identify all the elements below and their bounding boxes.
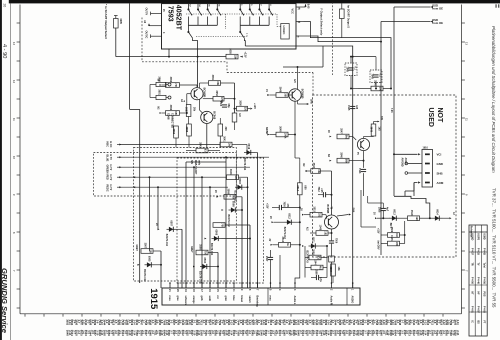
resistor R3504 vertical [331, 264, 336, 276]
svg-text:26: 26 [2, 4, 6, 8]
svg-text:3513: 3513 [296, 185, 299, 191]
svg-text:SH6: SH6 [310, 99, 313, 104]
svg-text:6518: 6518 [238, 178, 241, 184]
wire X1910 GND with socket [405, 162, 408, 165]
IC U1 switch array group 1 [187, 3, 189, 9]
svg-text:3654: 3654 [215, 90, 218, 96]
svg-text:BZX79-C12: BZX79-C12 [165, 234, 167, 247]
svg-text:750: 750 [148, 249, 151, 254]
svg-text:weiß: weiß [208, 296, 211, 302]
supply arrow 5A5 [304, 4, 306, 6]
matrix vertical wires [185, 162, 187, 288]
svg-text:TR: TR [470, 263, 472, 266]
wire collector drop [234, 83, 236, 113]
IC U1 output switch S2 [239, 25, 241, 31]
svg-text:3512: 3512 [281, 236, 284, 242]
resistor R3545 vertical [371, 124, 376, 136]
left black page edge [0, 0, 2, 340]
svg-text:6507: 6507 [170, 220, 173, 226]
svg-text:SHB: SHB [437, 171, 443, 175]
svg-text:TVR 37... TVR 5100... TVR 51: TVR 37... TVR 5100... TVR 5110 VT... TVR… [492, 188, 497, 308]
svg-text:gelb: gelb [200, 296, 203, 301]
svg-text:7545: 7545 [370, 74, 373, 80]
resistor R3546 [337, 158, 349, 163]
svg-text:3641: 3641 [222, 136, 225, 142]
connector pins P3691 [156, 95, 166, 99]
svg-text:BC858B: BC858B [326, 205, 328, 214]
svg-text:AV/GND: AV/GND [401, 158, 404, 167]
jumper via at box edge [329, 256, 335, 262]
svg-text:6512: 6512 [288, 213, 291, 219]
svg-text:1V: 1V [157, 79, 159, 82]
capacitor C7011 [381, 207, 386, 209]
resistor R3544 feed row [305, 170, 307, 172]
svg-text:Platinenabbildungen und Schalt: Platinenabbildungen und Schaltpläne / La… [491, 26, 496, 173]
svg-text:LOGIC: LOGIC [282, 26, 286, 35]
resistor R3653 vertical [174, 126, 179, 138]
svg-text:BZX79-C43: BZX79-C43 [306, 251, 309, 264]
svg-text:730: 730 [174, 83, 177, 88]
svg-text:bei GRV: bei GRV [377, 241, 379, 250]
svg-text:1915: 1915 [148, 288, 159, 310]
resistor R3657 vertical [186, 105, 191, 117]
svg-text:3505: 3505 [311, 249, 314, 255]
resistor R3509 [388, 233, 400, 238]
T6 emitter chain [331, 229, 333, 240]
resistor R3656 [166, 111, 180, 116]
dashed box B RGB SCART [177, 158, 264, 283]
svg-text:7508: 7508 [283, 202, 285, 208]
svg-text:SH6: SH6 [352, 208, 355, 213]
input arrow 12V T3 [267, 94, 269, 96]
svg-text:from OE: from OE [432, 7, 443, 11]
svg-text:5k6: 5k6 [344, 135, 347, 140]
svg-text:BC848: BC848 [212, 111, 215, 119]
matrix pair 2 resistor R3506 [213, 223, 225, 228]
svg-text:BC848B: BC848B [203, 88, 206, 98]
svg-text:1k5: 1k5 [377, 127, 380, 132]
svg-text:GND: GND [437, 162, 443, 166]
svg-text:IC: IC [470, 321, 472, 324]
svg-text:3652: 3652 [169, 77, 172, 83]
matrix diode V6507 [167, 228, 177, 230]
connector X1910 pin GND [425, 163, 430, 165]
svg-text:KOPS: KOPS [477, 234, 479, 241]
svg-text:OUT/C: OUT/C [145, 31, 148, 39]
wire X1910 VCI with arrow [394, 153, 418, 155]
svg-text:BZX79-C12: BZX79-C12 [199, 271, 201, 284]
diode V6511 lower [309, 245, 319, 247]
connector X1915 body [162, 288, 360, 305]
wire bus bottom staircase [394, 196, 430, 218]
svg-text:1k0: 1k0 [227, 143, 230, 148]
svg-text:3655: 3655 [228, 48, 231, 54]
OSD vertical 1 [393, 7, 395, 196]
svg-text:n15: n15 [355, 105, 358, 110]
dashed box matrix outer [134, 148, 237, 282]
capacitor C7546 [361, 168, 366, 170]
svg-text:A/V: A/V [293, 79, 296, 83]
wire IC output down [197, 49, 199, 87]
svg-text:3656: 3656 [169, 105, 172, 111]
svg-text:+12V: +12V [244, 52, 248, 58]
svg-text:910: 910 [203, 149, 206, 154]
svg-text:to TV: to TV [109, 165, 112, 171]
matrix pair 2 diode V6506 [212, 238, 222, 240]
transistor T3 [289, 89, 301, 101]
svg-text:220: 220 [243, 107, 246, 112]
connector X1910 pin VCI [425, 153, 430, 155]
svg-text:VCC: VCC [291, 9, 294, 14]
svg-text:2506: 2506 [219, 101, 221, 107]
resistor R1546 [316, 231, 328, 236]
svg-text:3649: 3649 [278, 87, 281, 93]
svg-text:3507: 3507 [143, 243, 146, 249]
svg-text:36k: 36k [216, 81, 219, 86]
svg-text:BZX79-C12: BZX79-C12 [143, 269, 145, 282]
T3 emitter arrow [297, 101, 299, 105]
wire KBC [122, 144, 221, 146]
svg-text:orange: orange [192, 296, 195, 305]
matrix pair 4 diode V6504 [200, 266, 210, 268]
svg-text:750: 750 [220, 223, 223, 228]
resistor R3510 [408, 216, 420, 221]
svg-text:6506: 6506 [215, 230, 218, 236]
svg-text:3653: 3653 [172, 129, 175, 135]
svg-text:2-14: 2-14 [456, 320, 460, 326]
connector X1910 pin AOM [425, 182, 430, 184]
connector X1910 pin SHB [425, 172, 430, 174]
svg-text:5A5: 5A5 [307, 4, 310, 9]
svg-text:Tafel: Tafel [483, 263, 485, 269]
diode V6019 [244, 152, 254, 154]
wire BLUE [122, 156, 270, 158]
svg-text:grün: grün [224, 296, 227, 302]
transistor T2 [201, 111, 213, 123]
svg-text:3509: 3509 [226, 188, 229, 194]
svg-text:10k: 10k [337, 267, 340, 272]
resistor R1545 [388, 241, 400, 246]
svg-text:7509: 7509 [335, 238, 337, 244]
svg-text:grau: grau [176, 296, 179, 302]
svg-text:4k7: 4k7 [318, 266, 321, 271]
svg-text:3545: 3545 [370, 127, 373, 133]
svg-text:NOT: NOT [436, 108, 443, 124]
svg-text:P 4-63: P 4-63 [483, 306, 486, 314]
svg-text:750: 750 [231, 195, 234, 200]
svg-text:15k: 15k [233, 55, 236, 60]
svg-text:CONNECTED: CONNECTED [170, 113, 173, 128]
svg-text:VCI: VCI [437, 153, 442, 157]
matrix pair 3 resistor R3507 [141, 249, 153, 254]
svg-text:to TV: to TV [109, 154, 112, 160]
svg-text:P 4-43: P 4-43 [483, 248, 486, 256]
svg-text:Y Output Select only: Y Output Select only [320, 8, 324, 36]
svg-text:6504: 6504 [203, 258, 206, 264]
svg-text:BZX79-C12: BZX79-C12 [227, 215, 229, 228]
svg-text:AUDIO: AUDIO [351, 296, 354, 304]
resistor R3505 [309, 255, 321, 260]
emitter drop to cluster [360, 190, 362, 227]
svg-text:to CO: to CO [109, 141, 112, 147]
left ruler [19, 5, 21, 314]
OSD vertical 2 [380, 22, 382, 256]
matrix pair 3 diode V6505 [145, 264, 155, 266]
wire REDC [122, 186, 229, 188]
T5 emitter wires [363, 151, 365, 168]
svg-text:only: only [198, 160, 201, 166]
left margin rule [10, 3, 12, 340]
svg-text:180: 180 [395, 242, 398, 247]
svg-text:P 4-37: P 4-37 [470, 248, 473, 256]
IC U1 4052BT outline [162, 4, 297, 49]
dashed box A inputs [94, 153, 237, 197]
svg-text:3510: 3510 [410, 210, 413, 216]
svg-text:390: 390 [378, 87, 381, 92]
svg-text:OUT/Y: OUT/Y [145, 8, 148, 16]
matrix pair A resistor R3643 [227, 175, 239, 180]
IC U1 logic block [281, 24, 289, 40]
svg-text:blau: blau [232, 296, 235, 301]
capacitor C2506b [222, 104, 227, 106]
top black border bar [9, 0, 500, 3]
svg-text:+12V: +12V [377, 228, 379, 234]
svg-text:4 - 90: 4 - 90 [1, 44, 7, 58]
component V6904 scart output [340, 9, 345, 19]
svg-text:3V: 3V [327, 130, 329, 133]
dashed region Y output select boundary [141, 18, 143, 62]
svg-text:rosa: rosa [168, 296, 171, 302]
svg-text:3508: 3508 [198, 244, 201, 250]
svg-text:910: 910 [395, 233, 398, 238]
IC U1 switch array group 2 [239, 3, 241, 9]
svg-text:P 4-57: P 4-57 [477, 306, 480, 314]
svg-text:1545: 1545 [347, 105, 350, 111]
svg-text:7546: 7546 [358, 168, 361, 174]
svg-text:4052BT: 4052BT [175, 5, 183, 31]
svg-text:3658: 3658 [185, 127, 188, 133]
bottom ruler [20, 313, 462, 315]
svg-text:6014: 6014 [436, 209, 439, 215]
matrix pair 1 diode V6508 [229, 209, 239, 211]
svg-text:P 4-61: P 4-61 [470, 306, 473, 314]
svg-text:1546: 1546 [318, 225, 321, 231]
svg-text:IGMD: IGMD [483, 234, 485, 240]
transistor T5 [357, 138, 369, 150]
svg-text:7512: 7512 [317, 187, 319, 193]
transistor T6 [325, 215, 339, 229]
IC U1 left pin A2 [148, 23, 150, 25]
svg-text:3546: 3546 [339, 152, 342, 158]
svg-text:390: 390 [224, 127, 227, 132]
svg-text:680: 680 [174, 111, 177, 116]
svg-text:BC848B: BC848B [301, 89, 304, 99]
svg-text:6019: 6019 [247, 144, 250, 150]
resistor R3652 [166, 83, 180, 88]
svg-text:6905: 6905 [119, 19, 122, 25]
svg-text:3547: 3547 [339, 128, 342, 134]
svg-text:1V: 1V [373, 212, 375, 215]
svg-text:3509: 3509 [390, 227, 393, 233]
svg-text:to TV: to TV [109, 185, 112, 191]
svg-text:1V: 1V [265, 89, 268, 92]
resistor R3651 [209, 81, 221, 86]
wire T6 collector vertical [331, 171, 333, 215]
diode row arrow left [375, 217, 377, 219]
dashed box C NOT USED [313, 95, 457, 257]
svg-text:Audio L: Audio L [293, 296, 296, 305]
svg-text:GREEN: GREEN [106, 165, 109, 174]
wires risers above connector [279, 255, 281, 283]
svg-text:GRUNDIG Service: GRUNDIG Service [0, 268, 9, 334]
svg-text:for SCART Output S: for SCART Output S [347, 5, 350, 28]
svg-text:schwarz: schwarz [184, 296, 187, 306]
T2 emitter down [206, 124, 208, 148]
svg-text:GREY: GREY [135, 245, 137, 252]
svg-text:braun: braun [240, 296, 243, 303]
svg-text:P 4-56: P 4-56 [483, 277, 486, 285]
matrix pair 1 resistor R3509 [224, 195, 236, 200]
svg-text:56k: 56k [344, 159, 347, 164]
resistor R3512 [271, 244, 273, 246]
svg-text:violett: violett [248, 296, 251, 303]
wire bundle corners right of IC [304, 22, 392, 89]
svg-text:2V: 2V [155, 223, 157, 226]
svg-text:rosa: rosa [268, 296, 271, 302]
svg-text:1544: 1544 [313, 259, 316, 265]
svg-text:750: 750 [203, 251, 206, 256]
wire long vertical to matrix [139, 109, 141, 283]
junction on +12V feed [197, 56, 199, 58]
matrix pair A diode V6518 [235, 186, 245, 188]
svg-text:P 4-46: P 4-46 [477, 277, 480, 285]
svg-text:+12V: +12V [253, 103, 256, 109]
svg-text:1545: 1545 [390, 235, 393, 241]
svg-text:3543: 3543 [198, 142, 201, 148]
OSD input arrow 1 [431, 6, 433, 8]
resistor R1544 [311, 265, 323, 270]
wire +12V feed [116, 56, 226, 58]
svg-text:RED: RED [106, 175, 109, 180]
svg-text:1545: 1545 [345, 67, 348, 73]
svg-text:7593: 7593 [166, 6, 174, 22]
resistor R3648 [276, 132, 288, 137]
svg-text:3643: 3643 [229, 169, 232, 175]
svg-text:10k: 10k [317, 169, 320, 174]
svg-text:P 4-33: P 4-33 [477, 248, 480, 256]
resistor R3546a [371, 86, 383, 91]
svg-text:6505: 6505 [148, 256, 151, 262]
IC U1 internal control dashes [186, 13, 277, 15]
svg-text:2V: 2V [269, 216, 271, 219]
svg-text:N2/BD: N2/BD [265, 127, 268, 134]
svg-text:2506: 2506 [378, 207, 381, 213]
svg-text:GREY: GREY [190, 246, 192, 253]
svg-text:BLUE: BLUE [106, 155, 109, 162]
wire bend to pin3 [295, 270, 300, 283]
wire RED [122, 176, 227, 178]
connector X1915 pins [169, 283, 171, 288]
matrix pair 4 resistor R3508 [196, 250, 208, 255]
jumper H3 [232, 113, 237, 122]
diode V6512 [285, 221, 295, 223]
resistor R3641 [220, 142, 232, 147]
svg-text:680: 680 [304, 185, 307, 190]
input arrow left T1 row 1 [160, 84, 162, 86]
input arrow left T1 row 2 [160, 112, 162, 114]
svg-text:3657: 3657 [185, 107, 188, 113]
capacitor C2508 [315, 275, 317, 280]
connector pins P3690 [156, 82, 166, 86]
capacitor C2507 [268, 256, 273, 258]
IC U1 left pin OUT C [151, 35, 162, 37]
svg-text:2V: 2V [300, 208, 302, 211]
svg-text:2V: 2V [268, 239, 270, 242]
svg-text:+12V: +12V [266, 203, 268, 209]
svg-text:910: 910 [234, 176, 237, 181]
dashed link bottom box B [139, 281, 141, 283]
resistor R3547 [337, 134, 349, 139]
resistors R3658 R3659 vertical [187, 124, 192, 136]
svg-text:BS: BS [477, 321, 479, 325]
svg-text:3651: 3651 [211, 75, 214, 81]
svg-text:2508: 2508 [315, 269, 318, 275]
svg-text:7.96: 7.96 [390, 108, 392, 113]
IC U1 left pin OUT Y [151, 12, 162, 14]
capacitor C1545b [350, 105, 355, 107]
svg-text:2V: 2V [214, 190, 216, 193]
IC U1 output switch S1 [187, 25, 189, 31]
svg-text:* to SCART Output Select: * to SCART Output Select [104, 4, 108, 39]
svg-text:100k: 100k [283, 133, 286, 139]
svg-text:20k: 20k [193, 107, 196, 112]
resistor R3513 vertical [298, 183, 303, 195]
wire net from top margin [129, 3, 131, 109]
capacitor C7512 [322, 192, 324, 197]
svg-text:from OE: from OE [432, 21, 443, 25]
svg-text:2-14: 2-14 [456, 330, 460, 336]
svg-text:POS: POS [483, 292, 485, 297]
svg-text:33S: 33S [380, 116, 382, 121]
wire IC pin to feed [168, 49, 170, 57]
resistor R3655 [226, 54, 238, 59]
resistor R3650 [237, 106, 248, 111]
+12V label arrow [241, 56, 243, 58]
wire T3 down [294, 101, 296, 130]
wire X1910 SHB with socket [405, 172, 408, 175]
svg-text:360: 360 [283, 93, 286, 98]
svg-text:4µ7: 4µ7 [386, 207, 389, 212]
right ruler [461, 5, 463, 314]
svg-text:3691: 3691 [157, 89, 160, 95]
connector X1910 body [422, 150, 433, 188]
svg-text:P 4-50: P 4-50 [470, 277, 473, 285]
svg-text:3504: 3504 [329, 267, 332, 273]
svg-text:6013: 6013 [393, 209, 396, 215]
OSD input arrow 2 [431, 20, 433, 22]
transistor T1 [191, 88, 203, 100]
svg-text:6508: 6508 [232, 201, 235, 207]
wire GREEN [122, 166, 251, 168]
wire X1910 AOM with arrow [414, 182, 418, 184]
component V6905 output select [114, 19, 119, 29]
reference table right margin [469, 225, 487, 336]
svg-text:KOND: KOND [470, 234, 472, 241]
svg-text:AOM: AOM [437, 181, 444, 185]
RC cluster mid top [345, 63, 357, 76]
top right corner marks [496, 4, 497, 7]
T6 SH6 arrow [337, 215, 349, 217]
